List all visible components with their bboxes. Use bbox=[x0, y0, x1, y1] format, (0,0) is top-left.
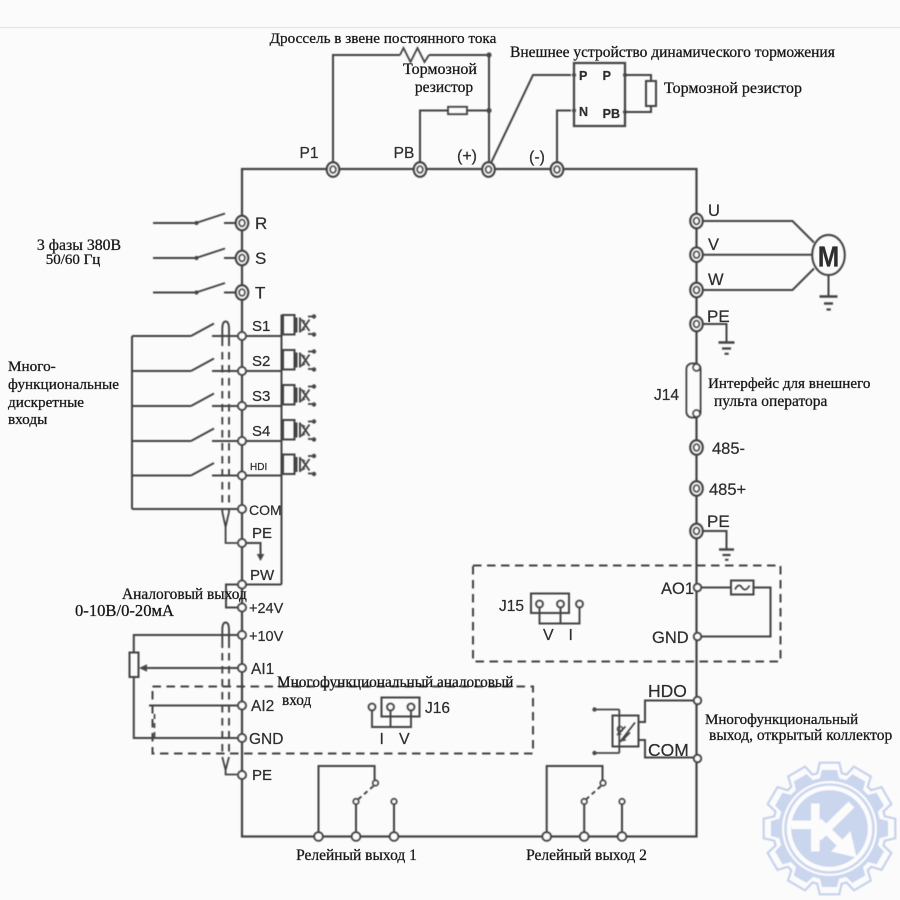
svg-text:Многофункциональный аналоговый: Многофункциональный аналоговый bbox=[277, 674, 513, 691]
input breaker R bbox=[153, 214, 236, 226]
dashed box analog output bbox=[473, 566, 781, 662]
terminal S3 bbox=[238, 402, 246, 410]
inverter enclosure bbox=[242, 169, 697, 837]
terminal +10V bbox=[238, 631, 246, 639]
svg-text:T: T bbox=[255, 284, 265, 303]
relay2 NO contact bbox=[619, 799, 624, 804]
relay2 terminal b bbox=[580, 832, 589, 841]
svg-text:Тормозной: Тормозной bbox=[403, 61, 477, 78]
terminal W bbox=[690, 283, 702, 297]
svg-text:PE: PE bbox=[707, 307, 730, 326]
relay2 blade dashed bbox=[587, 786, 602, 799]
optocoupler S2 bbox=[246, 349, 316, 371]
motor earth ground bbox=[820, 275, 838, 310]
relay2 common wire bbox=[583, 805, 585, 834]
terminal HDO bbox=[694, 697, 701, 704]
svg-text:резистор: резистор bbox=[415, 79, 473, 96]
terminal HDI bbox=[238, 472, 246, 480]
terminal PE control bbox=[238, 539, 246, 547]
terminal P1 bbox=[327, 162, 339, 176]
J16 links bbox=[372, 711, 411, 728]
wire potentiometer to GND bbox=[134, 677, 238, 738]
J16 pin 3 bbox=[408, 704, 415, 711]
switch S2 bbox=[132, 359, 238, 372]
terminal (-) bbox=[551, 162, 563, 176]
svg-text:S3: S3 bbox=[252, 388, 270, 405]
wire AI2 bbox=[149, 705, 238, 707]
svg-text:Релейный выход 2: Релейный выход 2 bbox=[526, 847, 647, 864]
external dynamic braking unit box bbox=[574, 63, 625, 126]
DC choke (zigzag) bbox=[400, 48, 429, 62]
svg-text:PB: PB bbox=[394, 145, 415, 162]
svg-text:I: I bbox=[569, 627, 573, 644]
dashed box analog input bbox=[153, 687, 534, 754]
svg-text:U: U bbox=[708, 202, 720, 220]
junction node top bbox=[486, 52, 491, 57]
terminal R bbox=[236, 216, 248, 230]
relay1 pivot contact bbox=[373, 780, 378, 785]
external brake resistor bbox=[646, 81, 656, 106]
terminal S bbox=[236, 251, 248, 265]
svg-text:дискретные: дискретные bbox=[8, 394, 84, 411]
wire U to motor bbox=[703, 221, 814, 243]
terminal PB bbox=[414, 162, 426, 176]
svg-text:(+): (+) bbox=[457, 148, 477, 165]
terminal COM output bbox=[694, 755, 701, 762]
svg-text:Интерфейс для внешнего: Интерфейс для внешнего bbox=[708, 376, 870, 392]
svg-text:W: W bbox=[708, 271, 724, 289]
wire PB to brake resistor bbox=[420, 111, 448, 164]
svg-text:Тормозной резистор: Тормозной резистор bbox=[664, 80, 802, 97]
junction node mid bbox=[486, 108, 491, 113]
svg-text:50/60 Гц: 50/60 Гц bbox=[46, 252, 101, 268]
terminal AO1 bbox=[694, 584, 701, 591]
svg-text:GND: GND bbox=[652, 629, 689, 647]
switch S3 bbox=[132, 394, 238, 407]
pin P left bbox=[572, 73, 576, 77]
wire external brake resistor bottom bbox=[625, 106, 651, 112]
wire P1 to DC choke bbox=[333, 55, 400, 163]
shield converge to PE bbox=[222, 512, 237, 543]
switch HDI bbox=[132, 463, 238, 476]
wire (-) to external brake unit N bbox=[557, 111, 571, 163]
svg-text:GND: GND bbox=[249, 731, 283, 748]
svg-text:выход, открытый коллектор: выход, открытый коллектор bbox=[709, 727, 892, 744]
svg-text:HDI: HDI bbox=[250, 462, 267, 473]
shield converge to PE analog bbox=[222, 757, 237, 775]
terminal 485- bbox=[690, 440, 702, 454]
svg-text:Много-: Много- bbox=[8, 358, 56, 375]
jumper PW to +24V bbox=[226, 585, 238, 608]
page rule (faint top divider) bbox=[0, 27, 900, 29]
terminal GND comm bbox=[694, 633, 701, 640]
wire PW to opto bus bbox=[246, 584, 282, 586]
terminal AI1 bbox=[238, 664, 246, 672]
input breaker T bbox=[153, 283, 236, 295]
svg-text:P: P bbox=[579, 69, 587, 83]
terminal PE comm bbox=[690, 524, 702, 538]
terminal PE output bbox=[690, 317, 702, 331]
terminal COM bbox=[238, 505, 246, 513]
svg-text:вход: вход bbox=[282, 692, 311, 709]
relay1 NO wire bbox=[393, 805, 395, 834]
svg-text:PE: PE bbox=[252, 525, 272, 542]
svg-text:P1: P1 bbox=[300, 145, 319, 162]
relay2 terminal c bbox=[618, 832, 627, 841]
svg-text:PE: PE bbox=[252, 767, 272, 784]
svg-text:S1: S1 bbox=[252, 318, 270, 335]
svg-text:HDO: HDO bbox=[648, 681, 687, 701]
terminal T bbox=[236, 285, 248, 299]
svg-text:P: P bbox=[603, 69, 611, 83]
optocoupler S4 bbox=[246, 419, 316, 441]
relay2 NO wire bbox=[621, 805, 623, 834]
wire W to motor bbox=[703, 269, 814, 291]
relay1 terminal b bbox=[352, 832, 361, 841]
output optocoupler bbox=[592, 707, 638, 755]
AO1 meter loop wire bbox=[701, 587, 731, 589]
terminal PE analog bbox=[238, 771, 246, 779]
relay1 wire NC bbox=[319, 766, 375, 833]
svg-text:AI2: AI2 bbox=[251, 698, 274, 715]
svg-text:R: R bbox=[255, 214, 267, 233]
svg-text:0-10В/0-20мА: 0-10В/0-20мА bbox=[75, 601, 174, 620]
terminal 485+ bbox=[690, 481, 702, 495]
svg-text:PW: PW bbox=[250, 567, 275, 584]
terminal U bbox=[690, 214, 702, 228]
svg-text:(-): (-) bbox=[529, 149, 545, 166]
svg-text:J16: J16 bbox=[425, 700, 450, 717]
PE output earth ground bbox=[703, 324, 735, 354]
terminal AI2 bbox=[238, 702, 246, 710]
optocoupler S1 bbox=[246, 314, 316, 336]
AO1 meter (instrument) bbox=[731, 581, 754, 595]
wire (+) to external brake unit P bbox=[490, 75, 571, 165]
svg-text:N: N bbox=[579, 105, 588, 119]
J15 links bbox=[540, 608, 580, 624]
jumper J16 box bbox=[382, 698, 420, 717]
potentiometer body bbox=[130, 653, 139, 678]
pin P right bbox=[623, 73, 627, 77]
opto input bus bbox=[281, 315, 283, 585]
relay2 terminal a bbox=[542, 832, 551, 841]
wire brake resistor to (+) riser bbox=[467, 110, 489, 112]
pin PB right bbox=[623, 110, 627, 114]
svg-text:+10V: +10V bbox=[249, 629, 284, 645]
PE arrow to earth bbox=[246, 543, 264, 561]
motor M bbox=[812, 235, 844, 275]
J15 pin 3 bbox=[576, 601, 583, 608]
shield drain dashed pair analog bbox=[222, 653, 229, 757]
relay output 1 bbox=[314, 766, 398, 841]
svg-text:485-: 485- bbox=[712, 440, 745, 458]
COM wire bbox=[639, 740, 694, 758]
terminal S1 bbox=[238, 332, 246, 340]
svg-text:AO1: AO1 bbox=[661, 580, 694, 598]
terminal +24V bbox=[238, 604, 246, 612]
svg-text:S2: S2 bbox=[252, 353, 270, 370]
watermark logo (gear with K) bbox=[764, 763, 896, 895]
svg-text:функциональные: функциональные bbox=[8, 376, 119, 393]
svg-text:M: M bbox=[818, 242, 840, 274]
svg-text:Релейный выход 1: Релейный выход 1 bbox=[296, 847, 417, 864]
HDO wire bbox=[639, 701, 694, 723]
switch S4 bbox=[132, 429, 238, 442]
svg-text:485+: 485+ bbox=[709, 481, 746, 499]
terminal PW bbox=[238, 581, 246, 589]
optocoupler HDI bbox=[246, 454, 316, 476]
svg-text:COM: COM bbox=[648, 740, 689, 760]
svg-text:V: V bbox=[399, 731, 410, 748]
svg-text:I: I bbox=[380, 731, 384, 748]
wire choke to (+) bbox=[429, 55, 489, 163]
J16 pin 2 bbox=[387, 704, 394, 711]
J16 pin 1 bbox=[369, 704, 376, 711]
wire V to motor bbox=[703, 254, 813, 256]
relay1 NO contact bbox=[391, 799, 396, 804]
svg-text:Внешнее устройство динамическо: Внешнее устройство динамического торможе… bbox=[510, 44, 835, 61]
relay1 common contact bbox=[353, 799, 358, 804]
PE comm earth ground bbox=[703, 531, 734, 560]
relay1 common wire bbox=[355, 805, 357, 834]
svg-text:J14: J14 bbox=[654, 387, 679, 404]
brake resistor PB bbox=[448, 107, 467, 114]
J15 pin 2 bbox=[557, 601, 564, 608]
svg-text:+24V: +24V bbox=[249, 601, 284, 617]
pin N left bbox=[572, 108, 576, 112]
wire meter to GND bbox=[701, 588, 771, 637]
relay1 blade dashed bbox=[359, 786, 374, 799]
wire +10V to potentiometer bbox=[134, 635, 238, 653]
input breaker S bbox=[153, 249, 236, 261]
relay2 pivot contact bbox=[600, 780, 605, 785]
svg-text:COM: COM bbox=[249, 502, 282, 518]
shield loop discrete inputs bbox=[222, 322, 229, 347]
svg-text:S4: S4 bbox=[252, 423, 270, 440]
svg-text:J15: J15 bbox=[499, 598, 524, 615]
svg-text:AI1: AI1 bbox=[251, 661, 274, 678]
terminal V bbox=[690, 248, 702, 262]
optocoupler S3 bbox=[246, 384, 316, 406]
terminal S2 bbox=[238, 367, 246, 375]
svg-text:Многофункциональный: Многофункциональный bbox=[705, 712, 858, 728]
jumper J15 box bbox=[531, 594, 569, 614]
svg-text:S: S bbox=[255, 249, 266, 268]
J15 pin 1 bbox=[536, 601, 543, 608]
svg-text:пульта оператора: пульта оператора bbox=[714, 393, 828, 410]
wire COM to bus bbox=[132, 508, 238, 510]
terminal GND analog bbox=[238, 734, 246, 742]
svg-text:PE: PE bbox=[707, 512, 730, 531]
svg-text:V: V bbox=[708, 236, 719, 254]
svg-text:Дроссель в звене постоянного т: Дроссель в звене постоянного тока bbox=[270, 30, 497, 47]
discrete input common bus bbox=[131, 336, 133, 509]
shield loop analog input bbox=[222, 623, 229, 649]
connector J14 bbox=[687, 364, 701, 418]
terminal (+) bbox=[482, 162, 494, 176]
AI2 stub dashed bbox=[154, 714, 156, 739]
relay2 wire NC bbox=[547, 766, 603, 833]
svg-text:PB: PB bbox=[603, 107, 620, 121]
terminal S4 bbox=[238, 437, 246, 445]
relay output 2 bbox=[542, 766, 626, 841]
potentiometer wiper wire AI1 bbox=[139, 664, 238, 672]
svg-text:V: V bbox=[543, 627, 554, 644]
switch S1 bbox=[132, 324, 238, 337]
shield drain dashed pair bbox=[222, 352, 229, 512]
relay2 common contact bbox=[582, 799, 587, 804]
wire external brake resistor top bbox=[625, 75, 651, 81]
relay1 terminal a bbox=[314, 832, 323, 841]
relay1 terminal c bbox=[390, 832, 399, 841]
svg-text:входы: входы bbox=[8, 411, 47, 428]
